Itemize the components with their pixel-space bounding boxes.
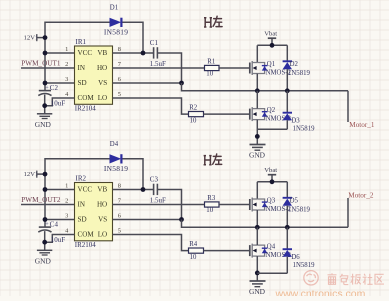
svg-text:Motor_2: Motor_2 xyxy=(348,191,374,199)
capacitor C2 10uF xyxy=(39,90,51,92)
wire R to Q gate high (1) xyxy=(219,67,250,69)
svg-text:R3: R3 xyxy=(207,195,216,202)
svg-text:HO: HO xyxy=(97,201,107,209)
svg-text:12V1: 12V1 xyxy=(24,35,39,42)
svg-text:HO: HO xyxy=(97,64,107,72)
title H左 (top) xyxy=(204,18,212,27)
svg-text:C1: C1 xyxy=(150,39,159,47)
svg-text:VB: VB xyxy=(97,186,107,194)
svg-text:VCC: VCC xyxy=(78,186,93,194)
junction midpoint (2) xyxy=(255,225,260,230)
transistor Q4 NMOS-2 xyxy=(249,245,251,256)
resistor R2 10 xyxy=(189,112,204,117)
svg-text:R2: R2 xyxy=(189,104,198,111)
svg-text:COM: COM xyxy=(78,94,95,102)
junction D mid (2) xyxy=(285,225,290,230)
wire top rail (1) xyxy=(257,44,287,46)
svg-text:1: 1 xyxy=(65,183,68,190)
svg-text:8: 8 xyxy=(118,46,121,53)
svg-text:VB: VB xyxy=(97,49,107,57)
diode D5 1N5819 xyxy=(283,197,292,199)
svg-text:R4: R4 xyxy=(189,241,198,248)
resistor R1 10 xyxy=(205,65,220,70)
svg-text:Q4: Q4 xyxy=(267,243,276,250)
wire gnd rail (1) xyxy=(257,128,287,130)
svg-text:5: 5 xyxy=(118,228,121,235)
wire VS pin6 (2) xyxy=(113,219,182,221)
wire VS to bridge midpoint (1) xyxy=(182,83,349,91)
svg-text:C2: C2 xyxy=(50,84,59,92)
wire midpoint to Q low drain (2) xyxy=(256,227,258,245)
svg-text:R1: R1 xyxy=(207,59,215,66)
wire cap to gnd node (1) xyxy=(44,95,46,114)
svg-text:GND: GND xyxy=(35,120,52,129)
op-amp/driver IC IR1 IR2104 xyxy=(75,46,113,104)
wire VS pin6 (1) xyxy=(113,82,182,84)
svg-text:IR2104: IR2104 xyxy=(75,241,97,249)
wire 12V vertical rail (2) xyxy=(45,159,110,227)
watermark text 面包板社区 xyxy=(328,273,337,284)
diode D3 1N5819 xyxy=(286,91,288,113)
junction midpoint (1) xyxy=(255,88,260,93)
wire HO pin7 (2) xyxy=(113,204,205,206)
junction pin1 (1) xyxy=(43,51,48,56)
svg-text:C4: C4 xyxy=(50,221,59,229)
wire cap to gnd node (2) xyxy=(44,231,46,250)
svg-text:6: 6 xyxy=(118,76,121,83)
svg-text:LO: LO xyxy=(98,231,107,239)
power port 12V1 (2) xyxy=(36,171,38,178)
wire rail to D cathode (2) xyxy=(286,182,288,198)
svg-text:1N5819: 1N5819 xyxy=(288,207,311,214)
svg-text:D1: D1 xyxy=(110,5,118,12)
svg-text:1.5uF: 1.5uF xyxy=(150,60,166,68)
svg-text:C3: C3 xyxy=(150,176,159,184)
capacitor C1 1.5uF xyxy=(153,47,155,58)
svg-text:D2: D2 xyxy=(290,61,299,68)
wire VB pin8 (1) xyxy=(113,52,154,54)
svg-text:SD: SD xyxy=(78,216,87,224)
svg-text:www.cntronics.com: www.cntronics.com xyxy=(275,288,366,296)
ground symbol bridge (2) xyxy=(250,280,266,282)
svg-text:Q2: Q2 xyxy=(267,107,276,114)
svg-text:IN5819: IN5819 xyxy=(104,164,128,173)
junction gnd (2) xyxy=(255,271,260,276)
wire C1 to VS branch (2) xyxy=(158,190,182,220)
wire rail to D cathode (1) xyxy=(286,45,288,61)
diode D1 IN5819 xyxy=(110,18,122,27)
wire to pin 3 (2) xyxy=(45,219,75,221)
svg-text:D6: D6 xyxy=(291,254,300,261)
svg-text:LO: LO xyxy=(98,94,107,102)
wire VS to bridge midpoint (2) xyxy=(182,220,349,228)
wire R to Q gate high (2) xyxy=(219,204,250,206)
wire to pin 1 (2) xyxy=(45,189,75,191)
junction 12V port (1) xyxy=(43,35,48,40)
capacitor C3 1.5uF xyxy=(153,184,155,195)
svg-text:D5: D5 xyxy=(290,198,299,205)
junction D mid (1) xyxy=(285,88,290,93)
transistor Q2 NMOS-2 xyxy=(249,109,251,120)
wire VB pin8 (2) xyxy=(113,189,154,191)
svg-text:IR2104: IR2104 xyxy=(75,104,97,112)
ground symbol left (2) xyxy=(37,249,52,251)
ground symbol left (1) xyxy=(37,113,52,115)
svg-text:10: 10 xyxy=(190,117,197,124)
svg-text:10: 10 xyxy=(206,207,213,214)
resistor R3 10 xyxy=(205,202,220,207)
junction gnd (1) xyxy=(255,134,260,139)
svg-text:10: 10 xyxy=(190,254,197,261)
junction pin1 (2) xyxy=(43,187,48,192)
svg-text:PWM_OUT2: PWM_OUT2 xyxy=(21,196,61,204)
junction pin3 (1) xyxy=(43,81,48,86)
power port 12V1 (1) xyxy=(36,34,38,41)
svg-text:IR1: IR1 xyxy=(76,38,87,46)
wire motor stub 2 xyxy=(347,198,349,227)
svg-text:10uF: 10uF xyxy=(51,236,66,244)
wire diode cathode to VB (2) xyxy=(122,159,143,190)
junction VB/D (1) xyxy=(141,51,146,56)
transistor Q3 NMOS-2 xyxy=(249,199,251,210)
svg-text:PWM_OUT1: PWM_OUT1 xyxy=(21,60,61,68)
svg-text:1N5819: 1N5819 xyxy=(288,70,311,77)
wire to pin 1 (1) xyxy=(45,52,75,54)
svg-text:Motor_1: Motor_1 xyxy=(349,121,375,129)
svg-text:10: 10 xyxy=(206,71,213,78)
svg-text:+: + xyxy=(45,84,49,91)
wire PWM_OUT2 to pin 2 (2) xyxy=(21,204,75,206)
junction gnd node (2) xyxy=(42,240,47,245)
svg-text:10uF: 10uF xyxy=(51,100,66,108)
wire LO pin5 jog (2) xyxy=(113,235,189,251)
svg-text:GND: GND xyxy=(249,150,266,159)
diode D6 1N5819 xyxy=(286,227,288,249)
svg-text:VS: VS xyxy=(98,79,107,87)
wire PWM_OUT1 to pin 2 (1) xyxy=(21,67,75,69)
junction 12V port (2) xyxy=(43,172,48,177)
wire 12V vertical rail (1) xyxy=(45,22,110,90)
svg-text:1: 1 xyxy=(65,46,68,53)
wire LO pin5 jog (1) xyxy=(113,98,189,114)
svg-text:Q1: Q1 xyxy=(267,61,275,68)
svg-text:IR2: IR2 xyxy=(76,174,87,182)
ground symbol bridge (1) xyxy=(250,144,266,146)
svg-text:IN: IN xyxy=(78,201,86,209)
svg-text:VCC: VCC xyxy=(78,49,93,57)
junction VB/D (2) xyxy=(141,187,146,192)
wire to pin 3 (1) xyxy=(45,82,75,84)
diode D4 IN5819 xyxy=(110,154,122,163)
wire pin4 COM jog (1) xyxy=(45,98,75,106)
svg-text:IN: IN xyxy=(78,64,86,72)
wire rail to Q drain (1) xyxy=(256,45,258,62)
diode D2 1N5819 xyxy=(283,60,292,62)
svg-text:3: 3 xyxy=(65,213,68,220)
junction VS (2) xyxy=(179,217,184,222)
wire C1 to VS branch (1) xyxy=(158,53,182,83)
wire Q low source to gnd (2) xyxy=(256,256,258,280)
svg-text:2: 2 xyxy=(65,198,68,205)
wire top rail (2) xyxy=(257,181,287,183)
junction VS (1) xyxy=(179,81,184,86)
capacitor C4 10uF xyxy=(39,226,51,228)
wire gnd rail (2) xyxy=(257,272,287,274)
wire HO pin7 (1) xyxy=(113,67,205,69)
wire diode cathode to VB (1) xyxy=(122,22,143,53)
wire rail to Q drain (2) xyxy=(256,182,258,199)
wire pin4 COM jog (2) xyxy=(45,235,75,243)
transistor Q1 NMOS-2 xyxy=(249,63,251,74)
svg-text:3: 3 xyxy=(65,76,68,83)
wire midpoint to Q low drain (1) xyxy=(256,91,258,109)
wire R to Q gate low (2) xyxy=(204,250,250,252)
junction pin3 (2) xyxy=(43,217,48,222)
svg-text:12V1: 12V1 xyxy=(24,171,39,178)
svg-text:GND: GND xyxy=(35,256,52,265)
wire Q low source to gnd (1) xyxy=(256,120,258,144)
svg-text:8: 8 xyxy=(118,183,121,190)
watermark logo circle xyxy=(304,271,318,285)
svg-text:1N5819: 1N5819 xyxy=(293,262,316,269)
svg-text:+: + xyxy=(45,221,49,228)
svg-text:VS: VS xyxy=(98,216,107,224)
svg-text:6: 6 xyxy=(118,213,121,220)
svg-text:SD: SD xyxy=(78,79,87,87)
wire Q high source to midpoint (2) xyxy=(256,210,258,227)
resistor R4 10 xyxy=(189,248,204,253)
svg-text:Vbat: Vbat xyxy=(264,31,277,38)
svg-text:Vbat: Vbat xyxy=(264,167,277,174)
svg-text:D4: D4 xyxy=(110,141,119,148)
wire Q high source to midpoint (1) xyxy=(256,74,258,91)
svg-text:5: 5 xyxy=(118,91,121,98)
svg-text:1.5uF: 1.5uF xyxy=(150,197,166,205)
svg-text:1N5819: 1N5819 xyxy=(293,125,316,132)
svg-text:GND: GND xyxy=(249,287,266,296)
svg-text:COM: COM xyxy=(78,231,95,239)
svg-text:D3: D3 xyxy=(291,117,300,124)
wire R to Q gate low (1) xyxy=(204,113,250,115)
wire motor stub 1 xyxy=(347,91,349,122)
title H左 (bottom) xyxy=(204,156,212,165)
svg-text:2: 2 xyxy=(65,61,68,68)
op-amp/driver IC IR2 IR2104 xyxy=(75,183,113,241)
svg-text:Q3: Q3 xyxy=(267,197,276,204)
svg-text:IN5819: IN5819 xyxy=(104,28,128,37)
junction gnd node (1) xyxy=(42,103,47,108)
